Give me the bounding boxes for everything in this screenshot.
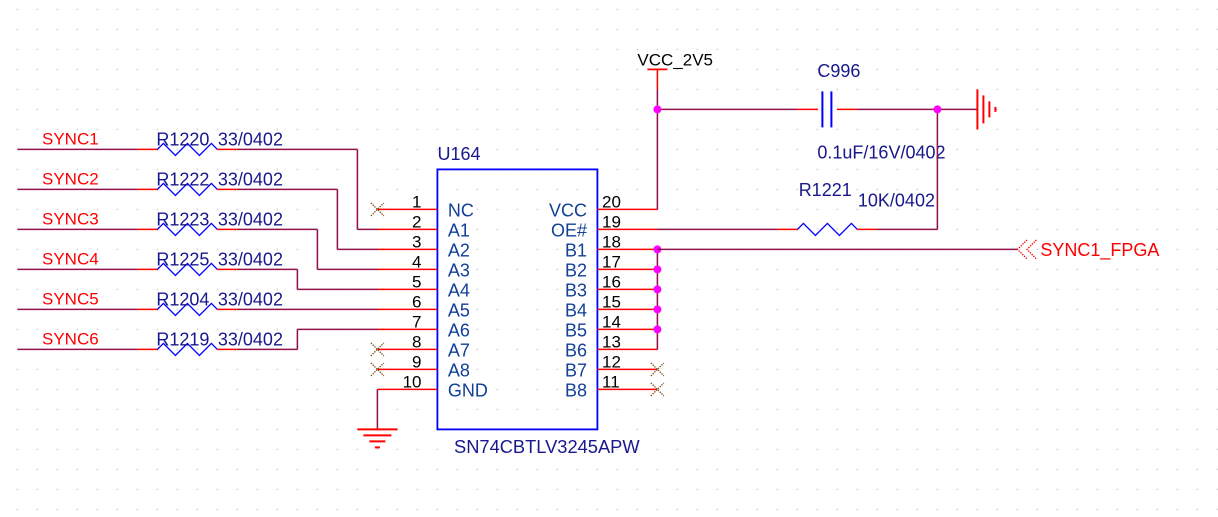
junction right node	[933, 105, 941, 113]
svg-text:OE#: OE#	[551, 221, 587, 241]
svg-text:8: 8	[412, 332, 421, 351]
wire SYNC6 resistor to corner	[237, 348, 297, 350]
wire SYNC4 vertical	[296, 269, 298, 289]
pin 5 line	[377, 288, 437, 290]
pin 10 line	[377, 388, 437, 390]
svg-text:A7: A7	[448, 341, 470, 361]
wire SYNC5 resistor to pin 6	[237, 308, 378, 310]
svg-text:3: 3	[412, 232, 421, 251]
svg-text:14: 14	[602, 312, 621, 331]
svg-text:R1220: R1220	[156, 129, 209, 149]
svg-text:SYNC6: SYNC6	[42, 329, 99, 348]
svg-text:SN74CBTLV3245APW: SN74CBTLV3245APW	[454, 436, 640, 457]
wire C996 to right node	[857, 108, 937, 110]
pin 6 line	[377, 308, 437, 310]
svg-text:B2: B2	[565, 261, 587, 281]
svg-text:B5: B5	[565, 321, 587, 341]
wire R1221 to vertical	[877, 228, 937, 230]
wire SYNC4 to pin 5	[297, 288, 378, 290]
junction at pin 15	[653, 305, 661, 313]
svg-text:33/0402: 33/0402	[218, 249, 283, 269]
pin 7 line	[377, 328, 437, 330]
wire pin 18 to SYNC1_FPGA	[657, 248, 1017, 250]
svg-text:33/0402: 33/0402	[218, 169, 283, 189]
pin 19 line	[597, 228, 657, 230]
wire SYNC6 to pin 7	[297, 328, 378, 330]
svg-text:B8: B8	[565, 381, 587, 401]
svg-text:15: 15	[602, 292, 621, 311]
wire right node down to R1221	[936, 109, 938, 229]
pin 15 line	[597, 308, 657, 310]
pin 8 line	[377, 348, 437, 350]
svg-text:1: 1	[412, 192, 421, 211]
svg-text:SYNC1_FPGA: SYNC1_FPGA	[1040, 240, 1159, 261]
capacitor C996	[797, 91, 857, 127]
svg-text:R1204: R1204	[156, 289, 209, 309]
svg-text:20: 20	[602, 192, 621, 211]
off-page connector chevrons	[1018, 240, 1037, 259]
svg-text:13: 13	[602, 332, 621, 351]
svg-text:33/0402: 33/0402	[218, 129, 283, 149]
wire SYNC3 to pin 4	[317, 268, 378, 270]
svg-text:A3: A3	[448, 261, 470, 281]
resistor R1219 33/0402	[137, 343, 237, 355]
resistor R1225 33/0402	[137, 263, 237, 275]
svg-text:A5: A5	[448, 301, 470, 321]
pin 2 line	[377, 228, 437, 230]
svg-text:12: 12	[602, 352, 621, 371]
junction at pin 18	[653, 245, 661, 253]
svg-text:C996: C996	[817, 61, 860, 81]
pin 20 line	[597, 208, 657, 210]
junction VCC node	[653, 105, 661, 113]
pin 1 line	[377, 208, 437, 210]
no-connect X on pin 12	[651, 363, 664, 376]
pin 4 line	[377, 268, 437, 270]
wire SYNC1 to pin 2	[357, 228, 378, 230]
wire SYNC3 vertical	[316, 229, 318, 269]
resistor R1221 10K/0402	[777, 223, 877, 235]
svg-text:GND: GND	[448, 381, 488, 401]
svg-text:R1225: R1225	[156, 249, 209, 269]
resistor R1223 33/0402	[137, 223, 237, 235]
svg-text:SYNC3: SYNC3	[42, 209, 99, 228]
ground symbol at pin 10	[357, 429, 397, 447]
pin 17 line	[597, 268, 657, 270]
wire SYNC2 vertical	[336, 189, 338, 249]
ground symbol right	[977, 89, 995, 129]
svg-text:B7: B7	[565, 361, 587, 381]
wire SYNC1 resistor to corner	[237, 148, 357, 150]
svg-text:16: 16	[602, 272, 621, 291]
svg-text:17: 17	[602, 252, 621, 271]
svg-text:A1: A1	[448, 221, 470, 241]
svg-text:4: 4	[412, 252, 421, 271]
pin 16 line	[597, 288, 657, 290]
svg-text:SYNC2: SYNC2	[42, 169, 99, 188]
no-connect X on pin 1	[371, 203, 384, 216]
wire SYNC6 vertical	[296, 329, 298, 349]
svg-text:11: 11	[602, 372, 620, 391]
svg-text:R1219: R1219	[156, 329, 209, 349]
wire right node to ground	[937, 108, 977, 110]
wire VCC node to C996	[657, 108, 797, 110]
wire SYNC2 to pin 3	[337, 248, 378, 250]
wire VCC node down to pin 20	[656, 109, 658, 209]
wire SYNC4 resistor to corner	[237, 268, 297, 270]
svg-text:B6: B6	[565, 341, 587, 361]
wire SYNC3 to resistor	[17, 228, 137, 230]
junction at pin 14	[653, 325, 661, 333]
svg-text:33/0402: 33/0402	[218, 289, 283, 309]
svg-text:U164: U164	[438, 144, 481, 164]
svg-text:2: 2	[412, 212, 421, 231]
svg-text:10K/0402: 10K/0402	[858, 191, 935, 211]
svg-text:NC: NC	[448, 201, 474, 221]
svg-text:SYNC5: SYNC5	[42, 289, 99, 308]
svg-text:A4: A4	[448, 281, 470, 301]
svg-text:VCC: VCC	[549, 201, 587, 221]
resistor R1204 33/0402	[137, 303, 237, 315]
pin 9 line	[377, 368, 437, 370]
wire SYNC4 to resistor	[17, 268, 137, 270]
svg-text:A2: A2	[448, 241, 470, 261]
svg-text:A8: A8	[448, 361, 470, 381]
svg-text:SYNC4: SYNC4	[42, 249, 99, 268]
wire bus B1-B6 vertical	[656, 249, 658, 349]
svg-text:33/0402: 33/0402	[218, 329, 283, 349]
pin 18 line	[597, 248, 657, 250]
no-connect X on pin 9	[371, 363, 384, 376]
svg-text:10: 10	[403, 372, 422, 391]
resistor R1222 33/0402	[137, 183, 237, 195]
wire SYNC3 resistor to corner	[237, 228, 317, 230]
svg-text:R1222: R1222	[156, 169, 209, 189]
wire power stem	[656, 89, 658, 109]
no-connect X on pin 8	[371, 343, 384, 356]
junction at pin 16	[653, 285, 661, 293]
svg-text:9: 9	[412, 352, 421, 371]
pin 13 line	[597, 348, 657, 350]
svg-text:VCC_2V5: VCC_2V5	[637, 50, 713, 69]
wire SYNC6 to resistor	[17, 348, 137, 350]
no-connect X on pin 11	[651, 383, 664, 396]
op IC U164 box	[437, 169, 597, 429]
wire SYNC1 to resistor	[17, 148, 137, 150]
svg-text:6: 6	[412, 292, 421, 311]
svg-text:R1221: R1221	[799, 180, 852, 200]
svg-text:5: 5	[412, 272, 421, 291]
wire SYNC5 to resistor	[17, 308, 137, 310]
svg-text:B4: B4	[565, 301, 587, 321]
svg-text:0.1uF/16V/0402: 0.1uF/16V/0402	[817, 142, 945, 162]
resistor R1220 33/0402	[137, 143, 237, 155]
svg-text:18: 18	[602, 232, 621, 251]
svg-text:7: 7	[412, 312, 421, 331]
svg-text:SYNC1: SYNC1	[42, 129, 99, 148]
wire SYNC1 vertical	[356, 149, 358, 229]
pin 11 line	[597, 388, 657, 390]
pin 14 line	[597, 328, 657, 330]
wire pin 10 to ground	[376, 389, 378, 429]
pin 12 line	[597, 368, 657, 370]
svg-text:19: 19	[602, 212, 621, 231]
power symbol VCC_2V5	[647, 69, 667, 89]
wire SYNC2 to resistor	[17, 188, 137, 190]
wire SYNC2 resistor to corner	[237, 188, 337, 190]
wire pin 19 to R1221	[657, 228, 777, 230]
pin 3 line	[377, 248, 437, 250]
svg-text:R1223: R1223	[156, 209, 209, 229]
junction at pin 17	[653, 265, 661, 273]
svg-text:A6: A6	[448, 321, 470, 341]
svg-text:B1: B1	[565, 241, 587, 261]
svg-text:B3: B3	[565, 281, 587, 301]
svg-text:33/0402: 33/0402	[218, 209, 283, 229]
